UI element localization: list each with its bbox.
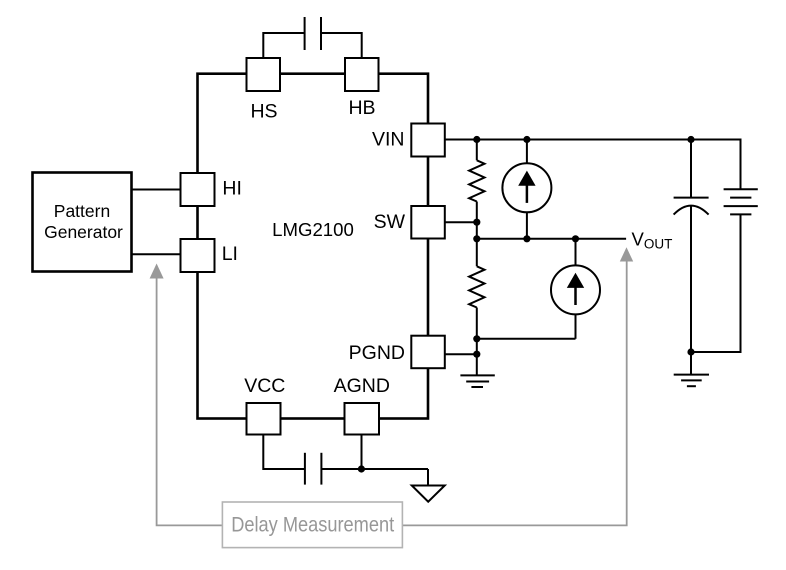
probe arrow at VOUT	[620, 247, 633, 261]
wire VIN rail to battery	[445, 140, 741, 190]
pin HI	[181, 173, 215, 206]
ground under resistor stack	[460, 375, 494, 387]
probe arrow at LI	[150, 264, 164, 279]
svg-text:LI: LI	[222, 243, 238, 265]
svg-text:SW: SW	[374, 211, 406, 233]
AGND triangle symbol	[412, 486, 445, 502]
label Pattern Generator	[44, 201, 123, 242]
pin VIN	[411, 124, 445, 157]
svg-text:HS: HS	[250, 101, 277, 123]
svg-text:VOUT: VOUT	[632, 229, 673, 252]
resistor R1	[469, 160, 484, 201]
svg-text:VIN: VIN	[372, 129, 405, 151]
svg-text:LMG2100: LMG2100	[272, 219, 354, 240]
label VOUT	[632, 229, 673, 252]
svg-text:HB: HB	[348, 97, 375, 119]
pin PGND	[411, 336, 445, 369]
svg-text:VCC: VCC	[244, 375, 285, 397]
wire battery bottom to output node	[691, 214, 741, 352]
wire HS to bootstrap capacitor	[263, 33, 304, 58]
wire resistor R1 to resistor R2	[476, 202, 478, 267]
probe wire from delay measurement to VOUT	[402, 261, 626, 526]
wire HB to bootstrap capacitor	[321, 33, 362, 58]
resistor R2	[469, 266, 484, 307]
pin VCC	[247, 403, 281, 435]
pattern generator box	[33, 173, 132, 272]
wire SW pin	[445, 221, 477, 223]
ground under output capacitor	[674, 375, 709, 387]
battery V1	[724, 189, 758, 214]
delay measurement box	[222, 502, 402, 548]
IC U1 LMG2100 outline	[198, 74, 429, 419]
bootstrap capacitor C1	[305, 17, 321, 50]
wire capacitor C2 to AGND symbol	[321, 468, 428, 470]
wire VIN to resistor R1	[476, 140, 478, 161]
wire VCC to capacitor C2	[263, 435, 305, 470]
svg-text:Pattern: Pattern	[54, 201, 110, 221]
svg-text:Delay Measurement: Delay Measurement	[231, 514, 394, 537]
wire pattern generator to HI	[132, 189, 181, 191]
output capacitor C3	[674, 198, 709, 215]
pin HB	[345, 58, 379, 91]
wire pattern generator to LI	[132, 253, 181, 255]
wire resistor R2 to ground	[476, 308, 478, 376]
pin LI	[181, 239, 215, 272]
pin SW	[411, 206, 445, 239]
wire bottom of current sources	[477, 338, 576, 340]
probe wire from delay measurement to LI	[157, 278, 223, 526]
wire VOUT node	[477, 238, 626, 240]
current source I2	[551, 239, 600, 339]
svg-text:HI: HI	[222, 178, 242, 200]
svg-text:AGND: AGND	[334, 375, 390, 397]
wire PGND pin	[445, 353, 477, 355]
wire output capacitor bottom	[690, 206, 692, 375]
pin HS	[247, 58, 281, 91]
svg-text:Generator: Generator	[44, 222, 123, 242]
wire AGND pin down	[361, 435, 363, 470]
vcc bypass capacitor C2	[305, 453, 322, 485]
svg-text:PGND: PGND	[349, 342, 405, 364]
current source I1	[502, 140, 551, 239]
wire to AGND triangle	[427, 469, 429, 486]
pin AGND	[345, 403, 380, 435]
wire output capacitor top	[690, 140, 692, 198]
